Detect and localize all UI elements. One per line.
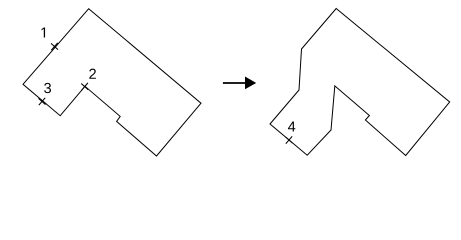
tick mark point 4 (286, 136, 293, 143)
tick mark point 1 (51, 43, 58, 50)
tick mark point 3 (39, 98, 46, 105)
preimage polygon (left figure) (23, 9, 201, 156)
image polygon (right figure) (270, 9, 450, 156)
arrow between figures (223, 77, 256, 90)
label 2 (89, 69, 96, 79)
label 4 (288, 122, 295, 132)
label 3 (44, 83, 51, 93)
label 1 (42, 28, 46, 38)
tick mark point 2 (81, 83, 88, 90)
